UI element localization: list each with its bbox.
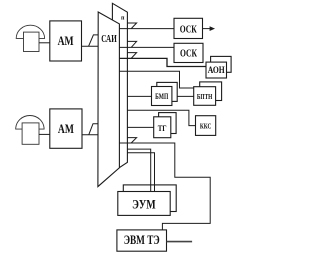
block OSK1 <box>174 18 203 38</box>
svg-text:БМП: БМП <box>155 92 169 101</box>
block EUM shadow <box>123 185 176 212</box>
arrow out of OSK1 <box>203 28 211 30</box>
telephone set 1 body <box>24 32 40 51</box>
wire SAI to AON <box>119 58 206 66</box>
trunk-group mark on OSK1 wire <box>127 23 136 29</box>
wire phone2 to AM2 <box>39 133 50 135</box>
svg-text:ОСК: ОСК <box>180 24 197 35</box>
block BPTN shadow <box>200 82 222 101</box>
switching stage front parallelogram SAI <box>98 12 120 187</box>
block AM2 <box>50 109 82 148</box>
wire SAI to OSK2 <box>119 46 174 48</box>
telephone set 2 arc <box>16 116 44 130</box>
wire AM1 to SAI <box>82 45 99 47</box>
block EVM TE <box>117 230 167 251</box>
wire AM2 to SAI <box>82 134 98 136</box>
trunk-group mark on AM2 wire <box>89 124 98 135</box>
svg-text:АМ: АМ <box>58 33 74 48</box>
wire phone1 to AM1 <box>39 42 50 44</box>
block KKS <box>196 116 216 136</box>
svg-text:п: п <box>121 16 125 22</box>
wire to EUM a <box>127 149 150 191</box>
telephone set 2 body <box>22 123 39 144</box>
svg-text:ЭУМ: ЭУМ <box>132 198 156 212</box>
telephone set 1 arc <box>16 25 44 38</box>
svg-text:ОСК: ОСК <box>180 49 197 60</box>
wire SAI to BPTN <box>119 71 193 88</box>
svg-text:САИ: САИ <box>101 34 117 45</box>
svg-text:ЭВМ ТЭ: ЭВМ ТЭ <box>124 233 160 247</box>
svg-text:АОН: АОН <box>208 65 225 75</box>
svg-text:БПТН: БПТН <box>197 92 213 101</box>
block TG shadow <box>159 113 177 134</box>
block BMP <box>152 87 172 106</box>
wire to KKS <box>127 110 195 125</box>
block AON shadow <box>211 56 232 72</box>
block OSK2 <box>174 43 203 62</box>
block BPTN <box>194 87 216 106</box>
trunk-group mark on OSK2 wire <box>127 41 136 47</box>
trunk-group mark on EVM wire <box>127 138 136 143</box>
svg-text:ККС: ККС <box>200 122 212 131</box>
svg-text:АМ: АМ <box>58 121 74 136</box>
trunk-group mark on AON wire <box>127 53 136 59</box>
block AON <box>206 62 227 78</box>
stub wire right of EVM TE <box>167 241 193 243</box>
switching stage back parallelogram (n) <box>112 3 127 172</box>
block TG <box>154 117 171 138</box>
svg-text:ТГ: ТГ <box>158 124 167 133</box>
block EUM <box>118 192 170 216</box>
wire BMP to BPTN <box>172 95 194 97</box>
block AM1 <box>50 21 82 61</box>
wire SAI to OSK1 <box>119 28 174 30</box>
block BMP shadow <box>157 82 177 101</box>
wire to EUM b <box>127 153 154 192</box>
wire to BMP <box>127 95 151 97</box>
trunk-group mark on AM1 wire <box>89 35 99 46</box>
wire to EVM TE <box>119 143 210 230</box>
wires into EUM over shadow <box>150 185 152 192</box>
wire to TG <box>127 126 153 128</box>
